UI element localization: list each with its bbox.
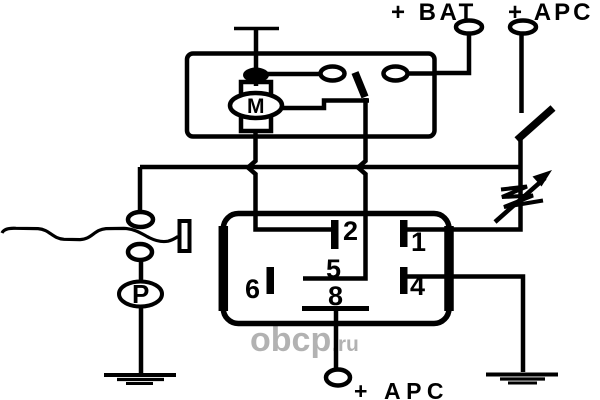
relay box right edge bbox=[444, 226, 454, 311]
relay pin 4 bbox=[400, 267, 408, 294]
svg-text:6: 6 bbox=[245, 274, 260, 304]
relay box left edge bbox=[219, 226, 229, 311]
svg-text:2: 2 bbox=[343, 216, 358, 246]
wire ring to P bbox=[139, 259, 144, 283]
pump unit box bbox=[187, 54, 435, 137]
svg-text:+ APC: + APC bbox=[354, 378, 449, 400]
contact a bbox=[321, 67, 345, 81]
wire dot to contact a bbox=[256, 72, 321, 77]
variable zigzag bbox=[501, 187, 543, 208]
wire +APC down bbox=[519, 34, 524, 114]
terminal +APC bottom bbox=[326, 370, 350, 386]
adjust arrow shaft bbox=[495, 178, 545, 222]
relay box bbox=[223, 214, 449, 324]
wire motor to lever (step) bbox=[282, 101, 369, 109]
relay pin 6 bbox=[267, 267, 275, 294]
wire contact b to box edge bbox=[407, 71, 433, 76]
flexible wire squiggle bbox=[2, 228, 178, 241]
terminal T-bar top bbox=[234, 27, 279, 31]
relay pin 1 bbox=[400, 220, 408, 247]
switch lever S2 bbox=[517, 108, 553, 140]
wire lever down to relay pin 5 (hop at crossing) bbox=[303, 98, 366, 279]
connector plate bbox=[180, 221, 190, 251]
contact b bbox=[384, 67, 408, 81]
relay pin 2 bbox=[331, 220, 339, 249]
wire left vertical bbox=[138, 167, 143, 213]
wire P to ground bbox=[139, 306, 144, 374]
ground left bbox=[104, 375, 176, 384]
switch lever S1 bbox=[355, 73, 365, 98]
wire +BAT down-left to box bbox=[434, 34, 469, 74]
motor M ellipse bbox=[230, 93, 282, 118]
wire pin 8 down bbox=[334, 309, 339, 371]
wire stem dot to motor bbox=[254, 75, 259, 86]
terminal +BAT bbox=[456, 21, 482, 34]
wire stem into box bbox=[254, 29, 259, 71]
ground right bbox=[486, 375, 558, 384]
wire long horizontal bbox=[140, 165, 520, 170]
connector ring top bbox=[128, 212, 153, 227]
wire pin 4 right and down bbox=[405, 277, 523, 373]
wire motor stem down to relay pin 2 (hop at crossing) bbox=[248, 129, 331, 230]
svg-text:5: 5 bbox=[326, 254, 341, 284]
pressure switch P bbox=[119, 282, 162, 307]
svg-text:obcp: obcp bbox=[250, 321, 331, 359]
relay pin 8 bar bbox=[302, 306, 369, 311]
connector ring bottom bbox=[128, 244, 152, 260]
junction dot bbox=[243, 68, 269, 83]
motor M body bbox=[241, 82, 271, 131]
wire pin 1 right bbox=[405, 139, 521, 230]
adjust arrow head bbox=[533, 170, 553, 187]
terminal +APC top bbox=[510, 21, 536, 34]
watermark obcp.ru bbox=[250, 321, 359, 359]
svg-text:P: P bbox=[132, 279, 149, 309]
svg-text:M: M bbox=[247, 95, 265, 118]
